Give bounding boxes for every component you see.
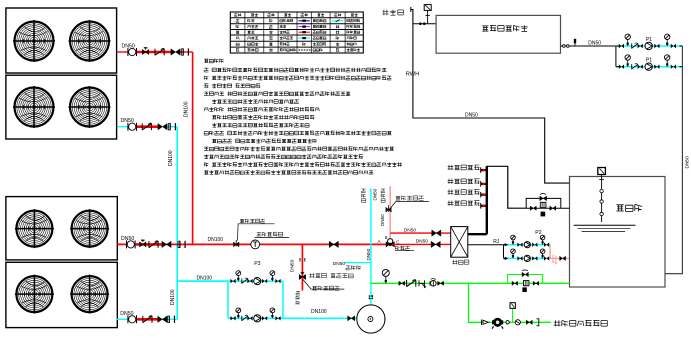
svg-text:P2: P2 [535, 230, 541, 236]
flexible joint pipe1 [128, 48, 137, 56]
svg-text:DN100: DN100 [208, 237, 224, 243]
pipe red thick 3 [136, 243, 162, 246]
storage tank [570, 177, 666, 288]
gate valve pipe3 [162, 241, 171, 247]
valve green bottom 1 [482, 320, 489, 326]
label end user 1 [448, 165, 480, 170]
valve red branch [299, 273, 305, 280]
cyan stub vertical [370, 188, 372, 305]
label DN50 pipe1 [122, 44, 135, 50]
check green [407, 280, 416, 287]
label P1 lower [646, 58, 652, 64]
heat meter sensor 1 [233, 240, 239, 247]
strainer green [419, 280, 426, 288]
gauge green main [382, 269, 389, 283]
legend table grid [230, 12, 363, 53]
label heat meter 3 [312, 286, 339, 290]
label cold warm water 1 [362, 189, 366, 202]
svg-text:DN50: DN50 [366, 248, 371, 260]
leader heat meter 1 [238, 224, 275, 241]
P2 outlet pink [550, 245, 569, 259]
gauge circle green [515, 320, 520, 325]
svg-text:DN50: DN50 [373, 188, 378, 200]
bypass valve right green [533, 281, 539, 285]
label tap water [554, 320, 608, 326]
solar return line [665, 46, 682, 274]
gate valve red main [329, 241, 338, 247]
label C [396, 240, 400, 245]
leader heat meter 3 [303, 279, 344, 289]
meter bypass black [526, 198, 569, 208]
vent tip [410, 7, 412, 12]
fan F4 [69, 86, 111, 128]
cyan main DN100 [177, 280, 228, 282]
label three-way valve [395, 246, 414, 250]
fan unit box 4 [6, 262, 117, 327]
flex connector pink [552, 255, 558, 264]
label DN50 solar return [685, 156, 691, 169]
RJ line [468, 244, 504, 246]
union red branch [300, 258, 305, 262]
svg-text:DN50: DN50 [416, 238, 429, 244]
water meter black [540, 202, 546, 207]
tank water level [574, 225, 636, 231]
label solar collector [482, 25, 528, 31]
svg-text:DN50: DN50 [588, 41, 601, 47]
fan F6 [70, 209, 109, 248]
meter green [430, 279, 436, 287]
pipe red thick 1 [136, 51, 172, 54]
cyan outlet line [283, 317, 357, 319]
label P1 upper [646, 37, 652, 43]
gate valve pipe1 [171, 49, 180, 55]
svg-text:P1: P1 [646, 37, 652, 43]
legend entries [236, 19, 360, 52]
label cold warm air [346, 266, 361, 270]
label cold warm water 2 [381, 189, 385, 202]
svg-text:P1: P1 [646, 58, 652, 64]
label end user 4 [448, 201, 480, 206]
label DN100 cyan main [197, 275, 213, 281]
backflow preventer [492, 318, 503, 329]
butterfly valve pipe3 [140, 240, 146, 247]
red riser DN100 [192, 52, 194, 244]
meter box black [541, 212, 546, 217]
bypass valve top green [522, 270, 528, 277]
valve cyan stem [369, 295, 373, 300]
label DN50 rotated cyan branch [366, 248, 371, 260]
svg-text:RJ: RJ [493, 239, 500, 245]
svg-text:DN100: DN100 [311, 309, 327, 315]
fan F1 [13, 20, 55, 62]
expansion vessel box green [510, 303, 515, 309]
label cold warm vertical [296, 291, 300, 305]
collector feed line [413, 23, 436, 25]
label DN50 red branch [290, 259, 296, 272]
svg-text:DN50: DN50 [465, 113, 478, 119]
P2 left header [503, 245, 505, 259]
sensor collector outlet [574, 39, 576, 46]
pipe red 1b [180, 51, 193, 53]
check valve pipe3 [149, 241, 158, 248]
union dots feed [419, 22, 426, 25]
P3 right header [282, 281, 284, 318]
svg-text:DN50: DN50 [404, 228, 417, 234]
label DN50 cyan stub [373, 188, 378, 200]
union pipe3 [178, 241, 185, 248]
label DN50 RWH [465, 113, 478, 119]
valve green bottom 2 [526, 320, 532, 324]
flexible joint pipe4 [128, 315, 137, 323]
flexible joint pipe2 [128, 123, 137, 131]
hot water supply riser [468, 166, 526, 234]
pipe red thick 4 [136, 318, 159, 321]
svg-text:DN100: DN100 [170, 289, 176, 305]
end user stub 4 [481, 203, 487, 209]
end user stub 3 [481, 192, 487, 198]
fan unit box 2 [6, 75, 117, 139]
label P2 [535, 230, 541, 236]
svg-text:DN100: DN100 [168, 150, 174, 166]
safety valve stem [425, 11, 429, 24]
leader heat meter 2 [391, 202, 429, 208]
label A [378, 239, 382, 244]
pipe red from box1 [117, 51, 128, 53]
cyan branch stub [344, 262, 371, 264]
valve cyan outlet [348, 316, 355, 321]
pipe red thick 2 [136, 125, 159, 128]
bypass valve left green [512, 281, 518, 285]
union pipe2 [168, 123, 175, 130]
solar collector [436, 15, 560, 53]
small circle green [506, 321, 509, 324]
gate valve lower branch [431, 241, 440, 247]
vent pipe RWH [411, 10, 570, 184]
end user stub 2 [481, 181, 487, 187]
label DN50 pink stub [380, 214, 385, 226]
P2 pump branch lower [504, 249, 551, 262]
pipe cyan from box2 [118, 126, 129, 128]
flow transmitter [251, 240, 260, 249]
label heat exchanger [452, 260, 469, 265]
P1 pump branch lower [616, 55, 683, 71]
check valve pipe2 [142, 123, 151, 130]
P2 pump branch upper [504, 235, 551, 248]
svg-text:P3: P3 [254, 261, 260, 267]
green branch down [469, 283, 551, 322]
label DN50 lower branch [416, 238, 429, 244]
flexible joint pipe3 [127, 240, 136, 248]
legend header [234, 13, 357, 16]
svg-text:DN100: DN100 [184, 101, 190, 117]
label RWH [406, 71, 420, 77]
gate valve pipe2 [158, 124, 167, 130]
label DN100 cyan riser lower [170, 289, 176, 305]
label DN100 red riser [184, 101, 190, 117]
label end user 3 [448, 189, 480, 194]
union pipe4 [167, 316, 174, 323]
label DN50 upper branch [404, 228, 417, 234]
tank agitator shaft [599, 175, 604, 223]
expansion tank [357, 305, 385, 333]
meter box green [522, 287, 526, 292]
label DN50 cyan branch [333, 261, 346, 267]
green dash to text [543, 321, 551, 323]
valve green 2 [438, 281, 444, 285]
fan unit box 1 [6, 8, 117, 73]
P3 pump branch upper [228, 271, 283, 285]
svg-text:DN100: DN100 [197, 275, 213, 281]
fan F8 [70, 275, 109, 314]
bypass valve left black [530, 206, 536, 210]
cyan riser DN100 [176, 127, 178, 320]
bypass valve top black [540, 194, 547, 201]
fan unit box 3 [6, 197, 117, 260]
svg-text:DN50: DN50 [290, 259, 296, 272]
label heat meter 2 [396, 196, 424, 200]
P1 pump branch upper [616, 34, 683, 50]
svg-text:DN50: DN50 [333, 261, 346, 267]
expansion vessel stem green [512, 308, 514, 322]
green bypass [508, 275, 543, 284]
svg-text:DN50: DN50 [380, 214, 385, 226]
label storage tank [616, 204, 642, 211]
fan F3 [13, 86, 55, 128]
label to inspection workshop [310, 273, 354, 278]
svg-text:B: B [385, 235, 388, 240]
label DN50 pipe4 [120, 311, 133, 317]
butterfly valve pipe1 [142, 48, 148, 55]
tank agitator motor [598, 168, 606, 175]
fan F7 [15, 275, 54, 314]
water meter green [524, 281, 529, 286]
label RJ [493, 239, 500, 245]
gate valve upper branch [432, 230, 441, 236]
fan F2 [69, 20, 111, 62]
red branch down [301, 244, 303, 290]
label heat meter 1 [240, 219, 265, 223]
check valve pipe1 [155, 48, 164, 55]
label flow transmitter [257, 232, 283, 236]
label end user 2 [448, 179, 480, 184]
bypass valve right black [550, 206, 556, 210]
pipe4 line [117, 318, 177, 320]
label DN50 collector outlet [588, 41, 601, 47]
safety valve box [424, 5, 431, 11]
label DN50 pipe3 [121, 236, 134, 242]
heat meter sensor 2 [386, 205, 392, 212]
three-way valve [386, 239, 395, 248]
red main line [117, 243, 387, 245]
svg-text:RWH: RWH [406, 71, 420, 77]
label DN100 cyan riser upper [168, 150, 174, 166]
gate valve pipe4 [158, 316, 167, 322]
pink stub vertical [389, 186, 391, 241]
P3 pump branch lower [228, 308, 283, 322]
pipe cyan 2b [167, 126, 178, 128]
P3 left header [227, 281, 229, 318]
heat exchanger [451, 227, 468, 258]
valve green 1 [399, 281, 405, 285]
collector outlet [561, 45, 616, 48]
design notes text [204, 59, 402, 175]
leader flow transmitter [255, 237, 289, 239]
green main [371, 282, 569, 284]
label B [385, 235, 388, 240]
label vent [382, 10, 403, 16]
red lower branch to exchanger [392, 243, 451, 245]
label P3 [254, 261, 260, 267]
P1 left header [615, 46, 617, 67]
red upper branch to exchanger [390, 232, 451, 234]
valve pink line [560, 256, 566, 260]
check valve pipe4 [143, 316, 152, 323]
label DN50 pipe2 [121, 118, 134, 124]
union pipe1 [181, 48, 188, 55]
label DN100 cyan outlet [311, 309, 327, 315]
end user stub 1 [481, 167, 487, 173]
svg-text:DN50: DN50 [685, 156, 691, 169]
fan F5 [15, 209, 54, 248]
bracket green [537, 319, 539, 326]
label DN100 red main [208, 237, 224, 243]
